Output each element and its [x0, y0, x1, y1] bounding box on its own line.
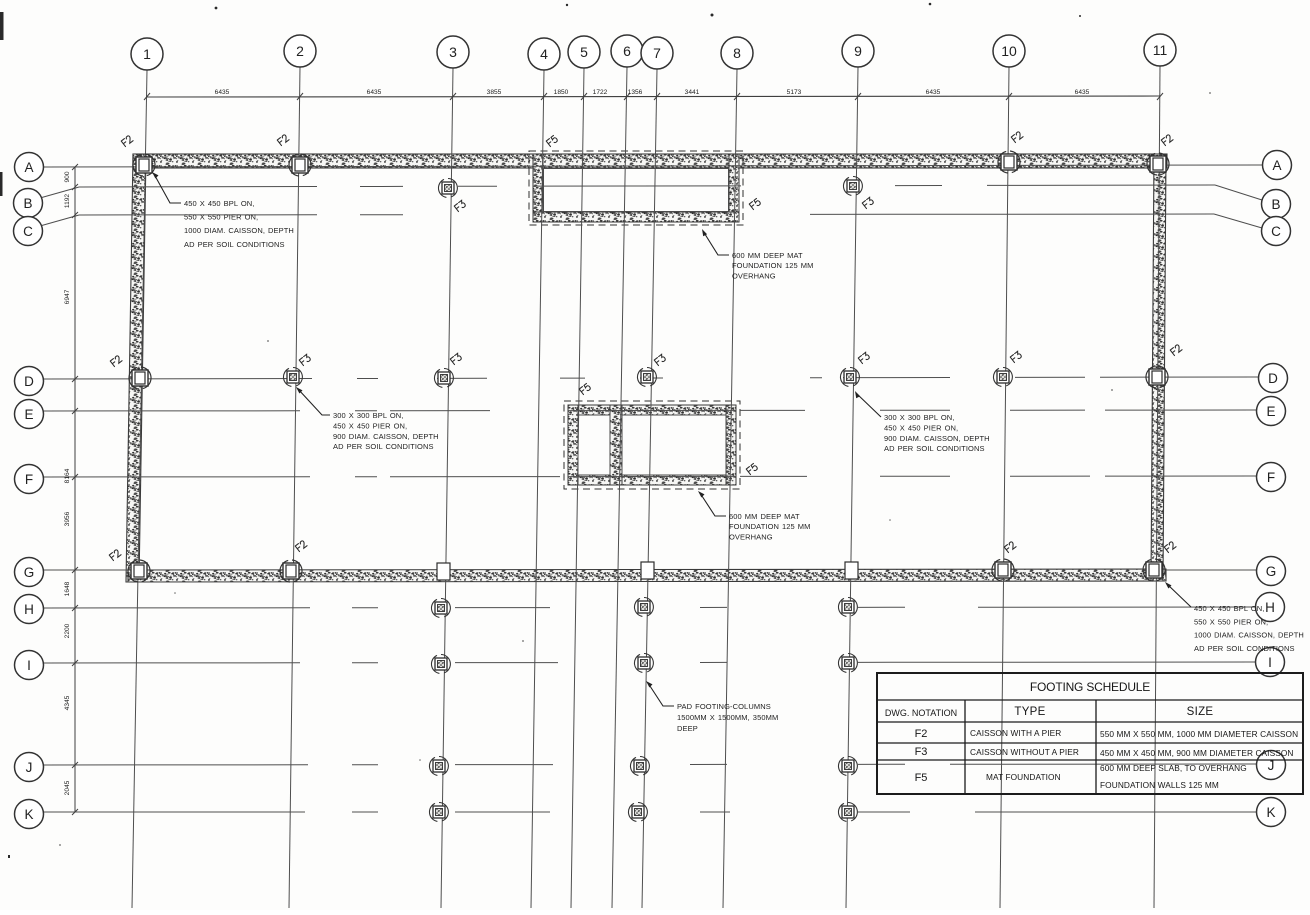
- left dimension tick at row G: [72, 567, 78, 573]
- label F3: [654, 354, 666, 365]
- grid bubble column 4: [528, 38, 560, 70]
- top dimension tick at column 11: [1157, 93, 1163, 100]
- left dimension tick at row J: [72, 762, 78, 768]
- footing F3 at I9: [838, 654, 857, 673]
- svg-text:F2: F2: [915, 728, 928, 740]
- svg-text:6: 6: [623, 43, 631, 59]
- label F2: [1164, 541, 1176, 553]
- svg-text:1722: 1722: [593, 89, 608, 96]
- grid bubble row E left: [15, 400, 44, 429]
- svg-text:E: E: [1266, 404, 1275, 419]
- svg-text:F3: F3: [915, 746, 928, 758]
- label F2: [1011, 131, 1023, 143]
- grid bubble row I left: [15, 651, 44, 680]
- svg-text:TYPE: TYPE: [1014, 706, 1045, 718]
- svg-text:8: 8: [733, 45, 741, 61]
- svg-text:K: K: [1266, 805, 1275, 820]
- grid bubble row F right: [1257, 463, 1286, 492]
- svg-text:9: 9: [854, 43, 862, 59]
- top dimension tick at column 6: [624, 93, 630, 100]
- grid bubble row H right: [1256, 593, 1285, 622]
- svg-text:FOUNDATION WALLS 125 MM: FOUNDATION WALLS 125 MM: [1100, 780, 1219, 790]
- grid column line 4: [531, 70, 544, 908]
- mat foundation 2 right wall: [726, 405, 736, 485]
- label F2: [121, 135, 133, 147]
- svg-text:1: 1: [143, 46, 151, 62]
- annotation caisson F3 right: [856, 393, 881, 417]
- grid row line A: [43, 165, 1263, 167]
- svg-text:CAISSON WITH A PIER: CAISSON WITH A PIER: [970, 728, 1061, 738]
- footing F3 at I7: [634, 654, 653, 673]
- footing F3 at D7: [637, 368, 656, 387]
- svg-text:300 X 300 BPL ON,: 300 X 300 BPL ON,: [884, 413, 955, 422]
- label F2: [277, 134, 289, 146]
- grid row line E: [43, 410, 300, 412]
- scan artifact marks: [59, 92, 1211, 846]
- svg-text:600 MM DEEP SLAB, TO OVERHANG: 600 MM DEEP SLAB, TO OVERHANG: [1100, 763, 1247, 773]
- footing F2 at D11: [1146, 366, 1168, 388]
- left dimension tick at row H: [72, 605, 78, 611]
- svg-text:550 X 550 PIER ON,: 550 X 550 PIER ON,: [1194, 617, 1268, 626]
- label F2: [1170, 344, 1182, 356]
- grid bubble row H left: [15, 595, 44, 624]
- footing schedule table: [877, 673, 1303, 794]
- grid bubble row J right: [1257, 751, 1286, 780]
- mat foundation 1 right wall: [729, 154, 739, 222]
- right foundation wall along column 11: [1151, 154, 1166, 581]
- grid bubble row A right: [1263, 151, 1292, 180]
- svg-text:AD PER SOIL CONDITIONS: AD PER SOIL CONDITIONS: [884, 444, 985, 453]
- wall pier square at G9: [845, 562, 858, 579]
- grid column line 10: [1000, 67, 1009, 908]
- svg-text:2200: 2200: [64, 623, 71, 638]
- svg-text:450 X 450 PIER ON,: 450 X 450 PIER ON,: [884, 423, 958, 432]
- grid row line I: [43, 662, 300, 664]
- svg-text:3956: 3956: [64, 511, 71, 526]
- left foundation wall along column 1: [126, 154, 146, 582]
- svg-text:5: 5: [580, 44, 588, 60]
- svg-text:CAISSON WITHOUT A PIER: CAISSON WITHOUT A PIER: [970, 747, 1079, 757]
- grid bubble row I right: [1256, 648, 1285, 677]
- svg-text:550 MM X 550 MM, 1000 MM DIAME: 550 MM X 550 MM, 1000 MM DIAMETER CAISSO…: [1100, 729, 1298, 739]
- grid row line C left connector: [40, 215, 79, 226]
- grid bubble column 3: [437, 36, 469, 68]
- grid bubble row J left: [15, 753, 44, 782]
- grid bubble column 2: [284, 35, 316, 67]
- label F2: [1004, 541, 1016, 553]
- annotation pad footing: [648, 683, 674, 706]
- svg-text:1192: 1192: [64, 194, 71, 209]
- grid bubble column 1: [131, 38, 163, 70]
- svg-text:450 X 450 BPL ON,: 450 X 450 BPL ON,: [184, 199, 255, 208]
- svg-text:900 DIAM. CAISSON, DEPTH: 900 DIAM. CAISSON, DEPTH: [884, 434, 990, 443]
- label F3: [299, 354, 311, 365]
- svg-text:FOOTING SCHEDULE: FOOTING SCHEDULE: [1030, 680, 1150, 694]
- mat foundation 1 inner boundary: [544, 169, 729, 212]
- footing F2 at A10: [998, 151, 1020, 173]
- label F3: [450, 353, 462, 364]
- grid column line 7: [642, 69, 657, 908]
- svg-text:4: 4: [540, 46, 548, 62]
- mat foundation 1 dashed overhang outline: [529, 151, 743, 225]
- svg-text:B: B: [23, 196, 32, 211]
- top dimension tick at column 3: [450, 93, 456, 100]
- svg-text:DWG. NOTATION: DWG. NOTATION: [885, 708, 957, 718]
- left dimension tick at row C: [72, 212, 78, 218]
- footing F3 at D10: [993, 368, 1012, 387]
- svg-text:C: C: [1271, 224, 1281, 239]
- footing F3 at H9: [838, 598, 857, 617]
- left dimension tick at row F: [72, 474, 78, 480]
- grid bubble column 6: [611, 35, 643, 67]
- top dimension tick at column 1: [144, 93, 150, 100]
- label F5: [579, 383, 591, 394]
- label F2: [109, 549, 121, 561]
- grid bubble row A left: [15, 153, 44, 182]
- svg-text:7: 7: [653, 45, 661, 61]
- grid row line B: [79, 186, 317, 188]
- left dimension line: [74, 167, 76, 812]
- left dimension tick at row I: [72, 660, 78, 666]
- footing F2 at A11: [1147, 153, 1169, 175]
- svg-text:550 X 550 PIER ON,: 550 X 550 PIER ON,: [184, 213, 258, 222]
- svg-text:8164: 8164: [64, 468, 71, 483]
- grid column line 11: [1154, 66, 1160, 908]
- svg-text:1000 DIAM. CAISSON, DEPTH: 1000 DIAM. CAISSON, DEPTH: [1194, 631, 1304, 640]
- svg-text:AD PER SOIL CONDITIONS: AD PER SOIL CONDITIONS: [333, 442, 434, 451]
- svg-text:F: F: [1267, 470, 1275, 485]
- grid bubble row G left: [15, 558, 44, 587]
- top dimension tick at column 5: [581, 93, 587, 100]
- svg-text:1000 DIAM. CAISSON, DEPTH: 1000 DIAM. CAISSON, DEPTH: [184, 226, 294, 235]
- left dimension tick at row B: [72, 184, 78, 190]
- annotation caisson F2 top-left: [154, 174, 181, 203]
- footing F3 at J9: [838, 757, 857, 776]
- svg-text:5173: 5173: [787, 89, 802, 96]
- svg-text:600 MM DEEP MAT: 600 MM DEEP MAT: [732, 251, 803, 260]
- svg-text:900: 900: [64, 171, 71, 182]
- svg-text:3441: 3441: [685, 89, 700, 96]
- label F5: [749, 198, 761, 209]
- footing F3 at J3: [429, 757, 448, 776]
- annotation caisson F2 bottom-right: [1167, 584, 1191, 607]
- mat foundation 2 left wall: [568, 405, 578, 485]
- svg-text:2: 2: [296, 43, 304, 59]
- mat foundation 2 divider wall: [610, 405, 622, 485]
- svg-text:PAD FOOTING-COLUMNS: PAD FOOTING-COLUMNS: [677, 702, 771, 711]
- footing F3 at K3: [429, 803, 448, 822]
- svg-text:3: 3: [449, 44, 457, 60]
- svg-text:6435: 6435: [1075, 89, 1090, 96]
- footing F3 at B9: [843, 177, 862, 196]
- top dimension line: [147, 96, 1160, 97]
- svg-text:DEEP: DEEP: [677, 724, 698, 733]
- annotation caisson F3 left: [298, 389, 330, 415]
- grid bubble row C left: [14, 217, 43, 246]
- grid row line C right connector: [1214, 214, 1262, 228]
- grid bubble row F left: [15, 465, 44, 494]
- svg-text:D: D: [1268, 371, 1278, 386]
- svg-text:G: G: [24, 565, 35, 580]
- svg-text:3855: 3855: [487, 89, 502, 96]
- svg-text:6435: 6435: [215, 89, 230, 96]
- footing F3 at H7: [634, 598, 653, 617]
- grid row line J: [43, 764, 308, 766]
- svg-text:D: D: [24, 374, 34, 389]
- bottom foundation wall along row G: [128, 569, 1166, 582]
- grid bubble row B right: [1262, 190, 1291, 219]
- svg-text:4345: 4345: [64, 695, 71, 710]
- grid row line B left connector: [40, 187, 79, 198]
- grid bubble row K right: [1257, 798, 1286, 827]
- wall pier square at G7: [641, 562, 654, 579]
- svg-text:1850: 1850: [554, 89, 569, 96]
- footing F3 at J7: [630, 757, 649, 776]
- mat foundation 1 bottom wall: [533, 212, 739, 222]
- grid bubble column 9: [842, 35, 874, 67]
- svg-text:C: C: [23, 224, 33, 239]
- footing F2 at A2: [289, 154, 311, 176]
- svg-text:10: 10: [1001, 43, 1017, 59]
- left dimension tick at row K: [72, 809, 78, 815]
- svg-text:E: E: [24, 407, 33, 422]
- svg-text:FOUNDATION 125 MM: FOUNDATION 125 MM: [732, 261, 814, 270]
- svg-text:6947: 6947: [64, 289, 71, 304]
- svg-text:SIZE: SIZE: [1187, 706, 1214, 718]
- grid row line G: [43, 569, 131, 571]
- footing F3 at D3: [434, 369, 453, 388]
- svg-text:1648: 1648: [64, 581, 71, 596]
- mat foundation 2 top wall: [568, 405, 736, 415]
- grid bubble column 11: [1144, 34, 1176, 66]
- mat foundation 2 dashed overhang outline: [564, 401, 740, 489]
- footing F3 at B3: [438, 179, 457, 198]
- svg-text:G: G: [1266, 564, 1277, 579]
- top dimension tick at column 9: [855, 93, 861, 100]
- footing F2 at G2: [280, 560, 302, 582]
- footing F2 at A1: [133, 154, 155, 176]
- footing F3 at I3: [431, 655, 450, 674]
- footing F2 at G10: [992, 559, 1014, 581]
- grid row line C: [79, 214, 317, 216]
- svg-text:450 MM X 450 MM, 900 MM DIAMET: 450 MM X 450 MM, 900 MM DIAMETER CAISSON: [1100, 748, 1294, 758]
- top dimension tick at column 10: [1006, 93, 1012, 100]
- grid bubble row B left: [14, 189, 43, 218]
- left dimension tick at row E: [72, 408, 78, 414]
- svg-text:600 MM DEEP MAT: 600 MM DEEP MAT: [729, 512, 800, 521]
- svg-text:H: H: [24, 602, 34, 617]
- svg-text:I: I: [1268, 655, 1272, 670]
- grid column line 1: [132, 70, 147, 908]
- top dimension tick at column 2: [297, 93, 303, 100]
- svg-text:AD PER SOIL CONDITIONS: AD PER SOIL CONDITIONS: [184, 240, 285, 249]
- svg-text:A: A: [1272, 158, 1281, 173]
- grid bubble column 8: [721, 37, 753, 69]
- svg-text:6435: 6435: [367, 89, 382, 96]
- svg-text:A: A: [24, 160, 33, 175]
- footing F3 at D9: [840, 368, 859, 387]
- svg-text:F5: F5: [915, 772, 928, 784]
- footing F2 at G11: [1143, 559, 1165, 581]
- footing F3 at K7: [628, 803, 647, 822]
- top dimension tick at column 8: [734, 93, 740, 100]
- label F2: [110, 355, 122, 367]
- grid row line K: [43, 811, 305, 813]
- svg-text:2045: 2045: [64, 780, 71, 795]
- svg-text:450 X 450 BPL ON,: 450 X 450 BPL ON,: [1194, 604, 1265, 613]
- grid column line 6: [612, 67, 627, 908]
- grid column line 8: [723, 69, 737, 908]
- svg-text:OVERHANG: OVERHANG: [732, 271, 776, 280]
- mat foundation 1 left wall: [533, 154, 543, 222]
- label F3: [858, 352, 870, 363]
- grid column line 2: [289, 67, 300, 908]
- svg-text:OVERHANG: OVERHANG: [729, 532, 773, 541]
- svg-text:11: 11: [1153, 42, 1168, 58]
- label F3: [454, 200, 466, 211]
- svg-text:1500MM X 1500MM, 350MM: 1500MM X 1500MM, 350MM: [677, 713, 778, 722]
- grid row line B right connector: [1215, 185, 1262, 200]
- svg-text:K: K: [24, 807, 33, 822]
- grid row line H: [43, 607, 310, 609]
- left dimension tick at row A: [72, 164, 78, 170]
- label F2: [295, 540, 307, 552]
- svg-text:FOUNDATION 125 MM: FOUNDATION 125 MM: [729, 522, 811, 531]
- grid row line D: [43, 378, 312, 380]
- annotation mat foundation 1: [703, 231, 729, 255]
- left dimension tick at row D: [72, 376, 78, 382]
- footing F3 at D2: [283, 368, 302, 387]
- wall pier square at G3: [437, 563, 450, 580]
- grid bubble row G right: [1257, 557, 1286, 586]
- svg-text:450 X 450 PIER ON,: 450 X 450 PIER ON,: [333, 421, 407, 430]
- footing F2 at D1: [129, 367, 151, 389]
- svg-text:6435: 6435: [926, 89, 941, 96]
- grid bubble row D left: [15, 367, 44, 396]
- label F5: [746, 463, 758, 474]
- grid bubble column 5: [568, 36, 600, 68]
- grid bubble column 10: [993, 35, 1025, 67]
- grid column line 5: [571, 68, 584, 908]
- svg-text:F: F: [25, 472, 33, 487]
- annotation mat foundation 2: [700, 493, 726, 516]
- grid column line 9: [846, 67, 858, 908]
- grid column line 3: [441, 68, 453, 908]
- top dimension tick at column 4: [541, 93, 547, 100]
- grid row line F: [43, 476, 310, 478]
- label F5: [546, 135, 558, 146]
- footing F2 at G1: [128, 560, 150, 582]
- svg-text:AD PER SOIL CONDITIONS: AD PER SOIL CONDITIONS: [1194, 644, 1295, 653]
- svg-text:900 DIAM. CAISSON, DEPTH: 900 DIAM. CAISSON, DEPTH: [333, 432, 439, 441]
- svg-text:H: H: [1265, 600, 1275, 615]
- grid bubble row D right: [1259, 364, 1288, 393]
- grid bubble row E right: [1257, 397, 1286, 426]
- top dimension tick at column 7: [654, 93, 660, 100]
- svg-text:B: B: [1271, 197, 1280, 212]
- label F3: [1010, 351, 1022, 362]
- grid bubble row C right: [1262, 217, 1291, 246]
- top foundation wall along row A: [133, 154, 1167, 168]
- mat foundation 2 left cell inner boundary: [578, 415, 610, 475]
- footing F3 at K9: [838, 803, 857, 822]
- label F3: [862, 197, 874, 208]
- mat foundation 2 bottom wall: [568, 475, 736, 485]
- mat foundation 2 right cell inner boundary: [622, 415, 726, 475]
- svg-text:1356: 1356: [628, 89, 643, 96]
- grid bubble row K left: [15, 800, 44, 829]
- grid bubble column 7: [641, 37, 673, 69]
- svg-text:J: J: [26, 760, 33, 775]
- label F2: [1161, 134, 1173, 146]
- svg-text:300 X 300 BPL ON,: 300 X 300 BPL ON,: [333, 411, 404, 420]
- svg-text:I: I: [27, 658, 31, 673]
- footing F3 at H3: [431, 599, 450, 618]
- svg-text:MAT FOUNDATION: MAT FOUNDATION: [986, 772, 1061, 782]
